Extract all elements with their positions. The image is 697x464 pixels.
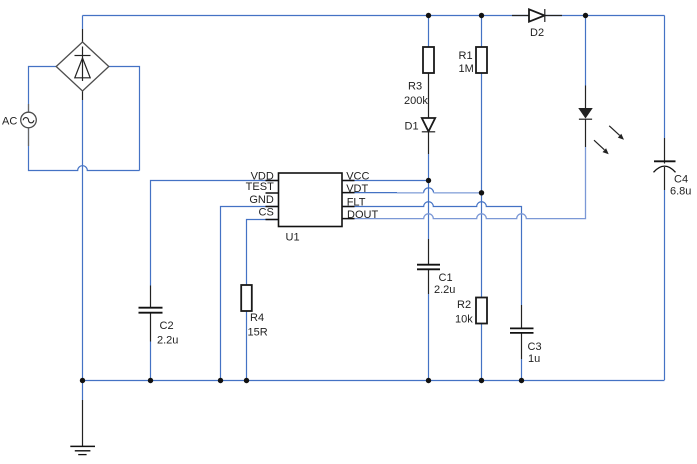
- svg-text:D1: D1: [405, 120, 419, 132]
- pin TEST: [246, 181, 279, 193]
- svg-text:C4: C4: [674, 173, 688, 185]
- LED arrow 2: [594, 140, 609, 154]
- wire C2 to bus: [150, 342, 152, 381]
- wire bridge right to loop: [109, 67, 140, 171]
- LED: [579, 109, 592, 120]
- capacitor C2: [139, 286, 163, 342]
- junction dot top rail R3: [426, 13, 431, 18]
- svg-text:2.2u: 2.2u: [157, 334, 178, 346]
- svg-text:DOUT: DOUT: [347, 209, 378, 221]
- svg-text:R4: R4: [250, 312, 264, 324]
- svg-text:AC: AC: [2, 115, 17, 127]
- pin VCC: [342, 170, 369, 182]
- ground: [70, 446, 95, 454]
- wire bridge top lead: [82, 16, 84, 43]
- wire R1 column top: [481, 16, 483, 48]
- wire D1 cathode lead: [428, 132, 430, 154]
- wire VDT net: [342, 188, 482, 193]
- junction dot bus C2: [148, 378, 153, 383]
- wire CS net: [247, 220, 279, 286]
- svg-text:6.8u: 6.8u: [670, 185, 691, 197]
- wire R4 to bus: [246, 311, 248, 381]
- svg-text:U1: U1: [286, 231, 300, 243]
- junction dot VCC node: [426, 178, 431, 183]
- svg-text:VDT: VDT: [346, 183, 368, 195]
- svg-text:R3: R3: [408, 81, 422, 93]
- wire top rail: [83, 15, 665, 17]
- diode D2: [529, 9, 545, 22]
- wire D2 leads: [512, 15, 562, 17]
- LED arrow 1: [609, 126, 624, 140]
- wire C1 top lead: [428, 239, 430, 265]
- junction dot bus R4: [244, 378, 249, 383]
- junction dot bus C1: [426, 378, 431, 383]
- wire VCC net: [342, 180, 429, 182]
- svg-text:200k: 200k: [404, 95, 428, 107]
- wire C3 bottom lead: [521, 333, 523, 380]
- resistor R1: [476, 47, 487, 73]
- junction dot top rail LED: [583, 13, 588, 18]
- pin VDD: [251, 171, 279, 183]
- svg-text:C1: C1: [439, 272, 453, 284]
- wire R1 to R2: [481, 73, 483, 298]
- wire bridge bottom lead: [82, 91, 84, 381]
- svg-text:2.2u: 2.2u: [434, 284, 455, 296]
- diode D1: [422, 118, 435, 132]
- svg-text:VCC: VCC: [346, 170, 369, 182]
- junction dot bus C3: [519, 378, 524, 383]
- svg-text:1M: 1M: [459, 63, 474, 75]
- wire ground bus: [83, 380, 665, 382]
- svg-text:R2: R2: [457, 299, 471, 311]
- svg-text:C2: C2: [160, 320, 174, 332]
- wire C4 bottom lead: [664, 167, 666, 380]
- wire DOUT net: [342, 147, 586, 219]
- resistor R3: [423, 47, 434, 73]
- capacitor C4: [654, 161, 676, 172]
- wire R2 to bus: [481, 324, 483, 381]
- pin DOUT: [342, 209, 378, 221]
- wire ground stem: [82, 381, 84, 447]
- wire C1 bottom lead: [428, 270, 430, 381]
- svg-text:C3: C3: [528, 341, 542, 353]
- wire C4 column top: [664, 16, 666, 164]
- pin GND: [249, 194, 278, 207]
- wire D1 to C1: [428, 154, 430, 239]
- junction dot VDT node: [479, 190, 484, 195]
- resistor R2: [476, 298, 487, 324]
- svg-text:R1: R1: [459, 50, 473, 62]
- wire VDD net: [151, 181, 279, 286]
- junction dot bus GND wire: [218, 378, 223, 383]
- resistor R4: [241, 285, 252, 311]
- wire FLT net: [342, 202, 522, 305]
- wire R3 to D1: [428, 73, 430, 118]
- pin FLT: [342, 197, 366, 209]
- wire LED cathode lead: [585, 119, 587, 147]
- pin VDT: [342, 183, 368, 195]
- junction dot top rail R1: [479, 13, 484, 18]
- wire R3 column top: [428, 16, 430, 48]
- wire GND net: [221, 207, 279, 381]
- svg-text:FLT: FLT: [347, 197, 366, 209]
- svg-text:TEST: TEST: [246, 181, 274, 193]
- wire LED column top: [585, 16, 587, 109]
- pin CS: [259, 207, 279, 220]
- svg-text:GND: GND: [249, 194, 274, 206]
- junction dot bus R2: [479, 378, 484, 383]
- wire AC top to bridge left: [29, 67, 57, 113]
- IC U1 box: [279, 173, 343, 227]
- svg-text:D2: D2: [530, 27, 544, 39]
- wire AC bottom loop with hop: [29, 128, 140, 171]
- svg-text:10k: 10k: [455, 313, 473, 325]
- bridge rectifier B1: [56, 42, 109, 91]
- junction dot bus ground tap: [80, 378, 85, 383]
- AC source V1: [21, 104, 37, 146]
- capacitor C3: [510, 328, 534, 333]
- svg-text:CS: CS: [259, 207, 274, 219]
- svg-text:15R: 15R: [248, 327, 268, 339]
- capacitor C1: [417, 265, 440, 270]
- wire C3 top lead: [521, 305, 523, 328]
- svg-text:1u: 1u: [528, 353, 540, 365]
